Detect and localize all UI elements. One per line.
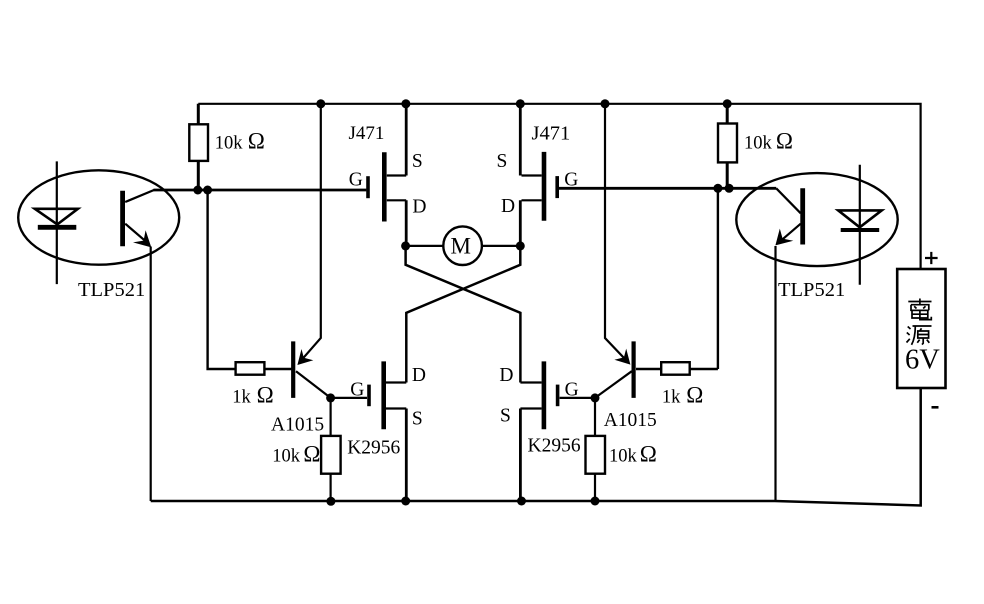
- svg-text:G: G: [349, 170, 363, 191]
- svg-text:Ω: Ω: [640, 441, 657, 466]
- svg-text:K2956: K2956: [528, 436, 581, 457]
- svg-text:1k: 1k: [232, 387, 251, 407]
- svg-text:S: S: [500, 406, 511, 427]
- svg-text:S: S: [497, 151, 508, 172]
- svg-text:D: D: [499, 365, 513, 386]
- svg-text:J471: J471: [532, 122, 571, 144]
- svg-text:D: D: [412, 365, 426, 386]
- svg-text:10k: 10k: [272, 446, 301, 466]
- svg-text:Ω: Ω: [303, 441, 320, 466]
- svg-text:J471: J471: [349, 123, 385, 144]
- svg-text:TLP521: TLP521: [78, 279, 145, 301]
- svg-text:6V: 6V: [905, 345, 940, 376]
- svg-text:S: S: [412, 151, 423, 172]
- svg-text:Ω: Ω: [257, 382, 274, 407]
- svg-text:10k: 10k: [609, 446, 638, 466]
- svg-text:G: G: [565, 380, 579, 401]
- svg-text:M: M: [451, 234, 471, 259]
- svg-text:Ω: Ω: [248, 128, 265, 153]
- svg-text:S: S: [412, 408, 423, 429]
- svg-text:Ω: Ω: [776, 128, 793, 153]
- svg-text:G: G: [564, 170, 578, 191]
- svg-text:Ω: Ω: [686, 382, 703, 407]
- svg-text:10k: 10k: [744, 133, 773, 153]
- svg-text:A1015: A1015: [604, 410, 657, 431]
- svg-text:D: D: [412, 196, 426, 217]
- svg-text:G: G: [350, 380, 364, 401]
- svg-text:1k: 1k: [662, 387, 681, 407]
- svg-text:A1015: A1015: [271, 414, 324, 435]
- svg-text:K2956: K2956: [347, 437, 400, 458]
- svg-text:TLP521: TLP521: [778, 279, 845, 301]
- svg-text:10k: 10k: [215, 133, 244, 153]
- svg-text:D: D: [501, 196, 515, 217]
